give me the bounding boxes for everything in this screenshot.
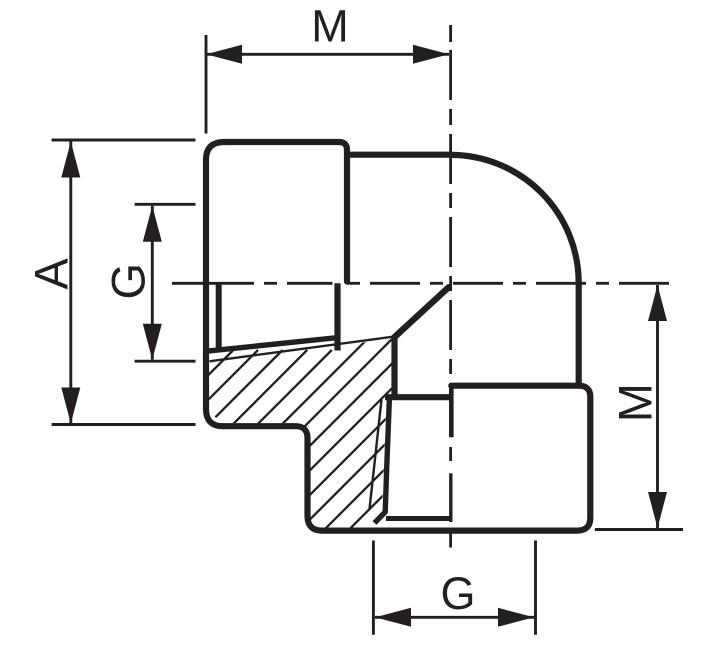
left port bore line (thin) bbox=[210, 337, 395, 362]
svg-text:G: G bbox=[102, 263, 155, 300]
dimension G left: dimension line bbox=[151, 206, 154, 360]
bottom port bore vertical (thick) bbox=[391, 338, 397, 397]
bottom port thread end horizontal bbox=[385, 394, 453, 400]
dimension G bottom: right arrow bbox=[498, 608, 534, 627]
dimension A: bottom arrow bbox=[61, 388, 80, 424]
dimension G left: top arrow bbox=[143, 206, 162, 242]
dimension M right: dimension line bbox=[656, 285, 659, 528]
left port inner bore vertical bbox=[216, 283, 222, 349]
dimension M top: right arrow bbox=[413, 45, 449, 64]
dimension M right: top arrow bbox=[648, 285, 667, 321]
bottom port thread major line (thin) bbox=[370, 400, 382, 510]
dimension G bottom: dimension line bbox=[375, 616, 534, 619]
horizontal centerline (left port axis) bbox=[172, 282, 669, 285]
dimension A: dimension line bbox=[69, 142, 72, 424]
svg-text:M: M bbox=[609, 383, 662, 422]
svg-text:G: G bbox=[440, 568, 475, 619]
body outline bbox=[206, 142, 590, 531]
dimension M right: bottom arrow bbox=[648, 492, 667, 528]
dimension G bottom: left arrow bbox=[375, 608, 411, 627]
dimension G left: top extension line bbox=[135, 203, 196, 206]
dimension G left: bottom extension line bbox=[135, 360, 196, 363]
bottom port box left vertical stub bbox=[449, 386, 454, 437]
svg-text:A: A bbox=[25, 258, 78, 290]
dimension M right: bottom extension line bbox=[595, 528, 683, 531]
miter diagonal bbox=[395, 287, 449, 337]
bottom port opening face line bbox=[386, 516, 452, 521]
dimension M top: extension line bbox=[205, 35, 208, 134]
outer arc bbox=[451, 155, 579, 386]
dimension G left: bottom arrow bbox=[143, 324, 162, 360]
dimension M top: left arrow bbox=[206, 45, 242, 64]
left port thread end vertical bbox=[334, 283, 340, 350]
svg-text:M: M bbox=[311, 1, 349, 52]
bottom port thread crest line with chamfer bbox=[375, 396, 390, 523]
hatch section lines bbox=[93, 330, 573, 550]
vertical centerline (bottom port axis) bbox=[449, 25, 452, 548]
dimension G bottom: left extension line bbox=[372, 541, 375, 635]
dimension A: top extension line bbox=[52, 139, 196, 142]
bottom port inner axis line bbox=[449, 473, 452, 522]
body top edge bbox=[347, 152, 452, 158]
dimension M top: dimension line bbox=[207, 53, 449, 56]
dimension G bottom: right extension line bbox=[534, 541, 537, 635]
dimension A: bottom extension line bbox=[52, 423, 196, 426]
dimension A: top arrow bbox=[61, 142, 80, 178]
left port thread crest slant (thick) bbox=[206, 338, 339, 352]
